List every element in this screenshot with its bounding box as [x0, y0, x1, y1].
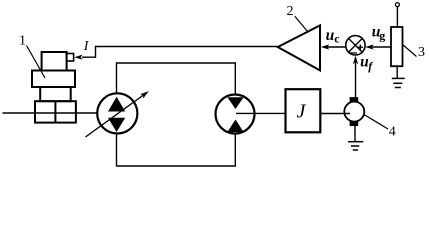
svg-text:3: 3 [418, 45, 425, 60]
svg-text:J: J [297, 101, 307, 123]
svg-text:I: I [83, 39, 90, 54]
svg-text:2: 2 [287, 4, 294, 19]
svg-text:c: c [334, 32, 340, 46]
svg-text:1: 1 [19, 34, 26, 49]
svg-text:f: f [368, 59, 373, 73]
svg-text:g: g [379, 29, 385, 43]
svg-text:4: 4 [389, 125, 396, 140]
